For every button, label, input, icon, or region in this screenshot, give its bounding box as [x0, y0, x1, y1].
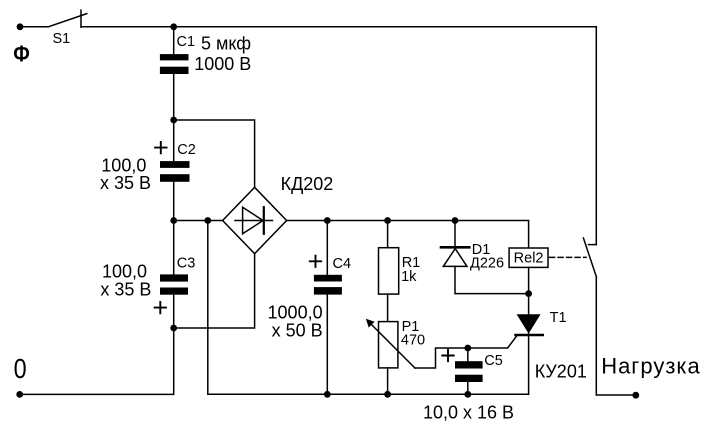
node C1 top	[170, 23, 177, 30]
wire	[326, 221, 328, 275]
potentiometer P1	[366, 319, 425, 368]
wire	[387, 221, 389, 248]
relay contact blade	[583, 238, 596, 277]
node C3 bottom	[170, 325, 177, 332]
capacitor C5	[442, 350, 503, 382]
relay contact fixed tick	[588, 244, 596, 246]
diode D1	[441, 221, 504, 272]
svg-text:0: 0	[14, 353, 27, 384]
svg-text:C2: C2	[177, 142, 196, 158]
node P1 bottom	[384, 391, 391, 398]
svg-text:10,0 x 16 В: 10,0 x 16 В	[423, 402, 514, 422]
svg-text:S1: S1	[53, 31, 71, 47]
svg-text:КД202: КД202	[281, 174, 334, 194]
node C5 top	[464, 345, 471, 352]
resistor R1	[379, 248, 421, 294]
label КУ201	[535, 362, 587, 382]
wire	[387, 294, 389, 322]
wire	[467, 348, 469, 361]
node rail left	[170, 217, 177, 224]
wire	[173, 221, 175, 276]
node	[204, 217, 211, 224]
wire to load	[596, 277, 633, 395]
wire to bridge top	[174, 120, 255, 187]
wire	[467, 382, 469, 394]
svg-text:x 50 В: x 50 В	[272, 321, 323, 341]
label C5 value	[423, 402, 514, 422]
wire top rail	[81, 26, 596, 28]
svg-text:x 35 В: x 35 В	[100, 173, 151, 193]
wire	[173, 182, 175, 221]
svg-text:C4: C4	[333, 256, 352, 272]
label C3 value	[100, 261, 151, 299]
capacitor C1	[160, 34, 195, 74]
node D1 top	[452, 217, 459, 224]
wire	[173, 27, 175, 54]
thyristor T1	[516, 294, 567, 395]
capacitor C3	[155, 255, 196, 313]
label КД202	[281, 174, 334, 194]
node R1 top	[384, 217, 391, 224]
svg-text:5 мкф: 5 мкф	[201, 33, 251, 53]
wire D1 bottom	[455, 266, 529, 293]
svg-text:Д226: Д226	[470, 255, 504, 271]
label Ф	[13, 41, 30, 67]
svg-text:1000 В: 1000 В	[194, 54, 251, 74]
node C4 bottom	[324, 391, 331, 398]
wire	[173, 295, 175, 329]
wire right drop	[595, 27, 597, 245]
wire relay dashed link	[550, 256, 586, 258]
svg-text:Ф: Ф	[13, 41, 30, 67]
terminal Ф	[17, 23, 24, 30]
svg-text:КУ201: КУ201	[535, 362, 587, 382]
wire to bridge bottom	[174, 254, 255, 328]
svg-text:x 35 В: x 35 В	[100, 280, 151, 300]
capacitor C4	[310, 256, 351, 295]
terminal 0	[16, 391, 23, 398]
label C4 value	[268, 303, 323, 341]
label C1 value	[194, 33, 251, 74]
switch S1	[48, 10, 87, 47]
node Rel2/T1	[525, 290, 532, 297]
wire right rail to Rel2	[287, 221, 529, 249]
svg-text:Нагрузка: Нагрузка	[601, 354, 701, 379]
node C5 bottom	[464, 391, 471, 398]
wire rail to bridge	[174, 220, 223, 222]
diode bridge КД202	[223, 187, 287, 253]
node C4 top	[324, 217, 331, 224]
wire down and bottom right rail	[208, 221, 529, 395]
svg-text:100,0: 100,0	[102, 261, 147, 281]
wire	[20, 26, 48, 28]
relay Rel2	[509, 248, 548, 267]
label 0	[14, 353, 27, 384]
wire Rel2 bottom	[528, 267, 530, 293]
wire wiper to gate	[415, 336, 517, 368]
wire	[173, 120, 175, 161]
terminal Нагрузка	[632, 392, 639, 399]
svg-text:T1: T1	[550, 310, 567, 326]
svg-text:1k: 1k	[401, 269, 417, 285]
wire	[326, 294, 328, 394]
capacitor C2	[155, 142, 196, 182]
svg-text:470: 470	[401, 332, 425, 348]
svg-text:Rel2: Rel2	[514, 251, 544, 267]
wire to 0 terminal	[20, 328, 174, 394]
svg-text:C1: C1	[177, 34, 196, 50]
node junction C1/C2	[170, 117, 177, 124]
label Нагрузка	[601, 354, 701, 379]
svg-text:C5: C5	[484, 353, 503, 369]
svg-text:C3: C3	[177, 255, 196, 271]
wire	[387, 368, 389, 394]
label C2 value	[100, 155, 151, 193]
wire	[173, 74, 175, 120]
